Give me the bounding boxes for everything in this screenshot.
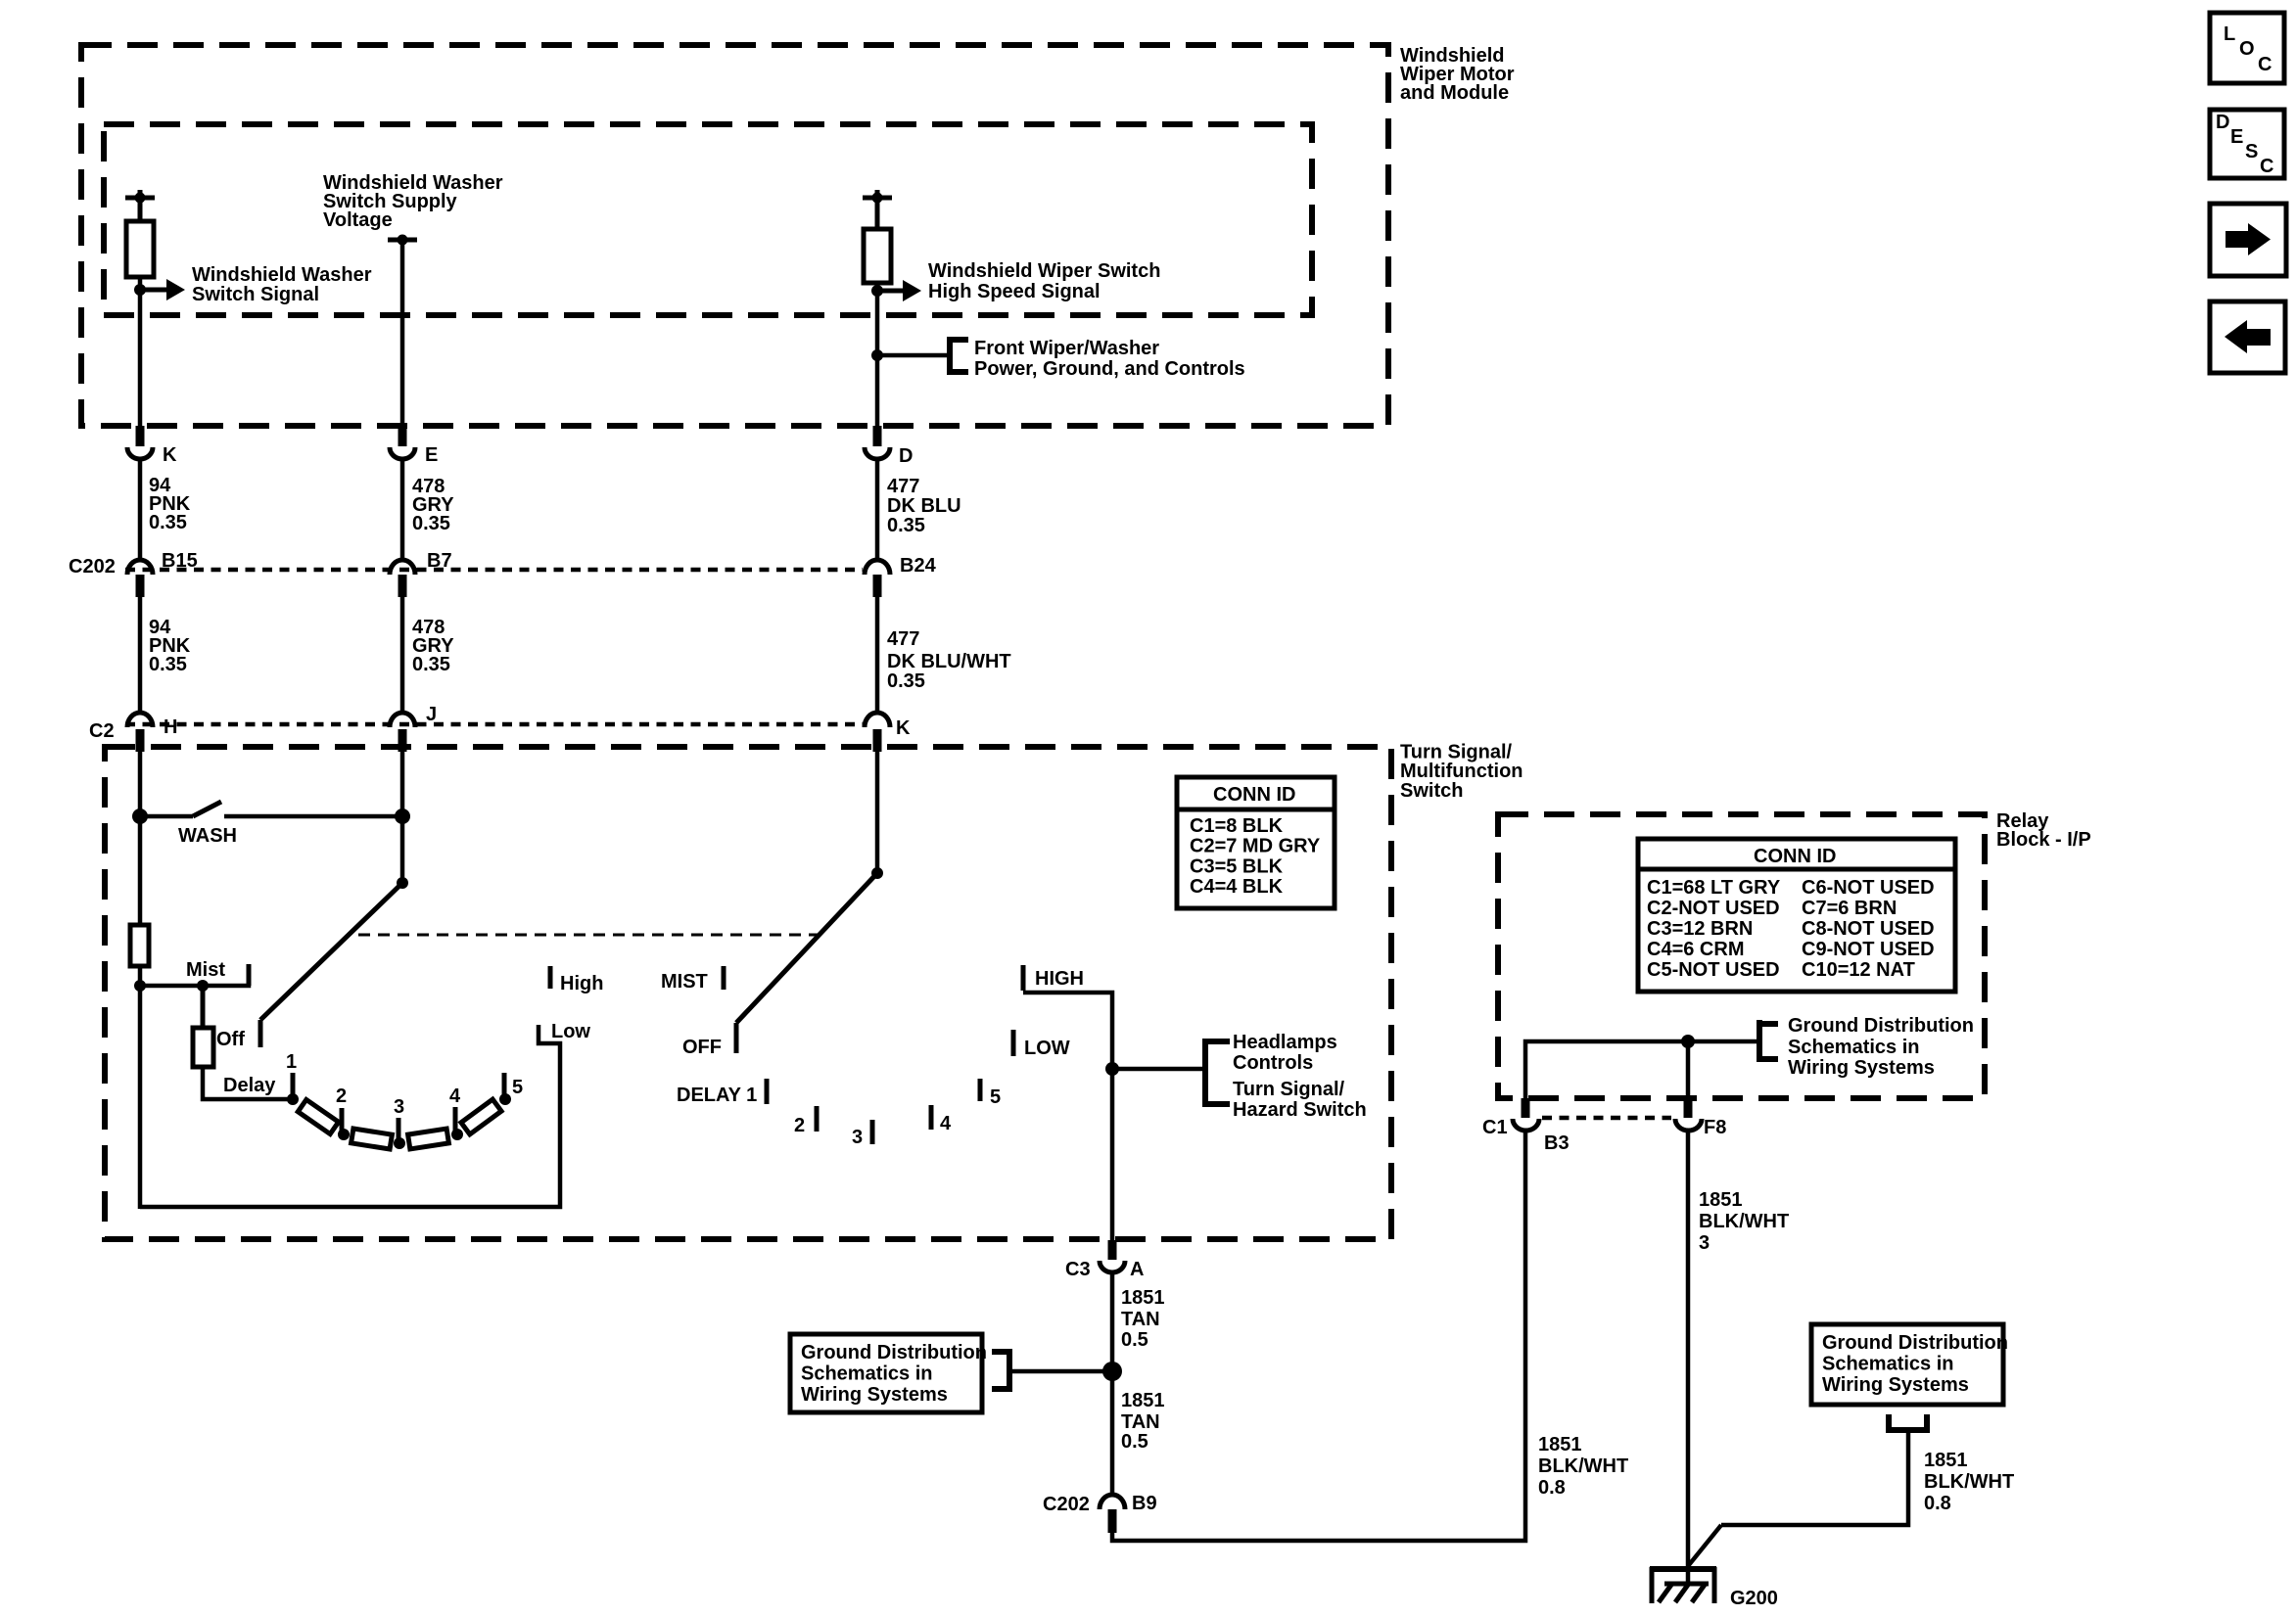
svg-text:Delay: Delay <box>223 1075 276 1096</box>
svg-text:TAN: TAN <box>1121 1309 1160 1330</box>
svg-text:C202: C202 <box>1043 1494 1090 1515</box>
svg-text:Wiring Systems: Wiring Systems <box>1822 1374 1969 1396</box>
svg-text:D: D <box>2216 112 2229 133</box>
svg-text:TAN: TAN <box>1121 1411 1160 1433</box>
svg-text:High: High <box>560 973 603 994</box>
svg-text:477: 477 <box>887 628 919 650</box>
rotary wiper blade (washer/delay) <box>260 883 402 1047</box>
wire label 1851 TAN 0.5 lower <box>1121 1390 1165 1453</box>
svg-text:E: E <box>425 444 438 466</box>
svg-text:0.8: 0.8 <box>1924 1493 1951 1514</box>
svg-text:2: 2 <box>794 1115 805 1136</box>
bracket Headlamps / Turn Signal <box>1202 1039 1230 1106</box>
bracket under right ground box <box>1889 1414 1927 1430</box>
svg-text:S: S <box>2245 141 2258 162</box>
dashed box Windshield Wiper Motor and Module (outer) <box>81 45 1388 426</box>
svg-text:3: 3 <box>1699 1232 1710 1254</box>
node relay ground junction <box>1681 1035 1695 1048</box>
connector C1 pin B3 arc <box>1513 1119 1539 1131</box>
svg-text:Off: Off <box>216 1029 245 1050</box>
dashed box Turn Signal / Multifunction Switch <box>105 747 1391 1239</box>
svg-text:K: K <box>163 444 177 466</box>
svg-text:Voltage: Voltage <box>323 209 393 231</box>
svg-text:Schematics in: Schematics in <box>801 1363 933 1385</box>
contact MIST tick <box>722 966 726 990</box>
svg-text:Ground Distribution: Ground Distribution <box>1822 1332 2008 1354</box>
node contact 1 <box>287 1093 299 1105</box>
svg-text:C: C <box>2260 156 2273 177</box>
svg-text:0.35: 0.35 <box>412 513 450 534</box>
svg-text:BLK/WHT: BLK/WHT <box>1924 1471 2014 1493</box>
wire 478 GRY upper <box>400 460 405 560</box>
wire 2 into switch <box>400 752 405 883</box>
wire to ground distribution bracket <box>1011 1369 1112 1374</box>
contact Mist tick <box>247 964 252 986</box>
svg-text:0.35: 0.35 <box>149 512 187 533</box>
svg-text:Front Wiper/Washer: Front Wiper/Washer <box>974 338 1159 359</box>
node wiper 2 pivot <box>871 867 883 879</box>
connector line C1-F8 <box>1542 1116 1671 1121</box>
wire label 477 DK BLU 0.35 <box>887 476 961 536</box>
contact HIGH tick and wire <box>1023 965 1112 1242</box>
svg-text:1851: 1851 <box>1121 1287 1165 1309</box>
wire to headlamps bracket <box>1112 1067 1203 1072</box>
connector C202 pin B7 arc <box>390 560 415 575</box>
svg-text:0.35: 0.35 <box>887 670 925 692</box>
contact 2 tick (mode) <box>815 1106 820 1132</box>
svg-text:Wiring Systems: Wiring Systems <box>801 1384 948 1406</box>
svg-text:C10=12 NAT: C10=12 NAT <box>1802 959 1915 981</box>
bracket Front Wiper/Washer <box>947 337 968 374</box>
dashed box inner module sub-block <box>104 124 1312 315</box>
wire F8 to ground (1851 BLK/WHT 3) <box>1686 1132 1691 1586</box>
resistor (wiper high speed) <box>864 229 891 283</box>
svg-text:Windshield Wiper Switch: Windshield Wiper Switch <box>928 260 1160 282</box>
label Ground Distribution Schematics (relay) <box>1788 1015 1974 1079</box>
svg-text:C4=6 CRM: C4=6 CRM <box>1647 939 1744 960</box>
contact 5 tick (mode) <box>978 1079 983 1101</box>
svg-text:L: L <box>2224 23 2235 45</box>
wire 1851 TAN upper <box>1110 1273 1115 1363</box>
wire 3 down to connector D <box>875 283 880 427</box>
pin K stub <box>136 426 145 446</box>
svg-text:CONN ID: CONN ID <box>1754 846 1836 867</box>
svg-text:C8-NOT USED: C8-NOT USED <box>1802 918 1935 940</box>
contact 2 tick <box>340 1108 345 1132</box>
node headlamps tap <box>1105 1062 1119 1076</box>
svg-text:C2=7 MD GRY: C2=7 MD GRY <box>1190 836 1321 857</box>
right-arrow legend box <box>2210 204 2286 276</box>
C2 pass-through connector line <box>125 722 863 727</box>
svg-text:2: 2 <box>336 1086 347 1107</box>
svg-text:F8: F8 <box>1704 1117 1726 1138</box>
node wiper 1 pivot <box>397 877 408 889</box>
wire label 1851 TAN 0.5 upper <box>1121 1287 1165 1351</box>
connector D arc <box>865 447 890 459</box>
svg-text:DELAY 1: DELAY 1 <box>677 1085 757 1106</box>
svg-text:0.5: 0.5 <box>1121 1329 1148 1351</box>
dashed box Relay Block - I/P <box>1498 814 1985 1098</box>
WASH switch blade <box>140 802 221 816</box>
node contact 2 <box>338 1129 350 1140</box>
svg-text:1851: 1851 <box>1699 1189 1743 1211</box>
wire 477 DK BLU/WHT <box>875 597 880 715</box>
resistor delay 2-3 <box>351 1129 393 1149</box>
wire label 478 GRY 0.35 upper <box>412 476 454 534</box>
power feed symbol wire 3 <box>863 190 892 229</box>
CONN ID table (Relay Block) <box>1638 839 1955 992</box>
node Off branch <box>197 980 209 992</box>
node washer switch signal tap <box>134 284 146 296</box>
connector C2 pin K arc <box>865 713 890 727</box>
connector E arc <box>390 447 415 459</box>
svg-text:D: D <box>899 445 913 467</box>
svg-text:C4=4 BLK: C4=4 BLK <box>1190 876 1284 898</box>
node ground distribution splice <box>1102 1362 1122 1381</box>
svg-text:0.35: 0.35 <box>412 654 450 675</box>
svg-text:Windshield Washer: Windshield Washer <box>192 264 372 286</box>
label Turn Signal/Multifunction Switch <box>1400 742 1523 803</box>
wire label 1851 BLK/WHT 3 <box>1699 1189 1789 1254</box>
label Front Wiper/Washer Power Ground and Controls <box>974 338 1245 380</box>
contact 4 tick (mode) <box>929 1105 934 1130</box>
wire label 477 DK BLU/WHT 0.35 <box>887 628 1011 692</box>
node contact 3 <box>394 1137 405 1149</box>
svg-text:J: J <box>426 704 437 725</box>
contact 3 tick (mode) <box>870 1120 875 1144</box>
label Windshield Wiper Switch High Speed Signal <box>928 260 1160 302</box>
svg-text:O: O <box>2239 38 2255 60</box>
power feed symbol wire 2 <box>388 235 417 428</box>
diagonal wire into ground <box>1688 1525 1721 1566</box>
svg-text:K: K <box>896 717 911 739</box>
pin J stub <box>398 729 407 752</box>
pin B9 stub <box>1108 1509 1117 1533</box>
node front wiper bracket tap <box>871 349 883 361</box>
connector F8 arc <box>1675 1119 1702 1131</box>
svg-text:H: H <box>164 716 177 738</box>
svg-text:B15: B15 <box>162 550 198 572</box>
pin B24 stub <box>873 575 882 597</box>
pin H stub <box>136 729 145 752</box>
connector C2 pin H arc <box>127 713 153 727</box>
label Relay Block - I/P <box>1996 810 2091 851</box>
rotary wiper blade (wiper mode) <box>736 873 877 1053</box>
svg-text:C3: C3 <box>1065 1259 1091 1280</box>
svg-text:0.35: 0.35 <box>149 654 187 675</box>
wire 3 into switch <box>875 752 880 873</box>
wire to Front Wiper/Washer bracket <box>877 353 948 358</box>
svg-text:C1=68 LT GRY: C1=68 LT GRY <box>1647 877 1781 899</box>
svg-text:and Module: and Module <box>1400 82 1509 104</box>
arrow Windshield Washer Switch Signal <box>140 279 185 300</box>
svg-text:C: C <box>2258 54 2272 75</box>
svg-text:C5-NOT USED: C5-NOT USED <box>1647 959 1780 981</box>
contact 1 tick <box>291 1073 296 1097</box>
svg-text:5: 5 <box>990 1086 1001 1108</box>
arrow Windshield Wiper Switch High Speed Signal <box>877 280 921 301</box>
svg-text:3: 3 <box>394 1096 404 1118</box>
wire label 94 PNK 0.35 upper <box>149 475 191 533</box>
svg-text:3: 3 <box>852 1127 863 1148</box>
left-arrow legend box <box>2210 301 2285 373</box>
svg-text:Switch Signal: Switch Signal <box>192 284 319 305</box>
wire 1851 TAN lower <box>1110 1371 1115 1495</box>
svg-text:0.35: 0.35 <box>887 515 925 536</box>
contact 3 tick <box>397 1118 401 1140</box>
wire 478 GRY lower <box>400 597 405 715</box>
resistor Off (delay) <box>193 1028 213 1067</box>
svg-text:OFF: OFF <box>682 1037 722 1058</box>
label Windshield Washer Switch Supply Voltage <box>323 172 503 231</box>
svg-text:Multifunction: Multifunction <box>1400 761 1523 782</box>
svg-text:1851: 1851 <box>1121 1390 1165 1411</box>
svg-text:BLK/WHT: BLK/WHT <box>1538 1455 1628 1477</box>
wire down to Off resistor <box>201 986 206 1028</box>
svg-text:DK BLU/WHT: DK BLU/WHT <box>887 651 1011 672</box>
label Headlamps Controls <box>1233 1032 1337 1074</box>
svg-text:High Speed Signal: High Speed Signal <box>928 281 1101 302</box>
contact High tick (delay rotary) <box>548 966 553 989</box>
resistor delay 4-5 <box>461 1099 501 1134</box>
contact 4 tick <box>453 1107 458 1131</box>
label Windshield Wiper Motor and Module <box>1400 45 1515 104</box>
svg-text:1851: 1851 <box>1924 1450 1968 1471</box>
wire 94 PNK lower <box>138 597 143 715</box>
resistor delay 1-2 <box>298 1099 338 1133</box>
pin E stub <box>398 426 407 446</box>
pin B15 stub <box>136 575 145 597</box>
svg-text:Wiring Systems: Wiring Systems <box>1788 1057 1935 1079</box>
svg-text:C1=8 BLK: C1=8 BLK <box>1190 815 1284 837</box>
pin F8 stub <box>1684 1098 1693 1118</box>
wire 477 DK BLU <box>875 460 880 560</box>
relay internal wire <box>1525 1041 1759 1100</box>
svg-text:C2-NOT USED: C2-NOT USED <box>1647 898 1780 919</box>
svg-text:A: A <box>1130 1259 1144 1280</box>
svg-text:Ground Distribution: Ground Distribution <box>801 1342 987 1363</box>
svg-text:C3=5 BLK: C3=5 BLK <box>1190 856 1284 878</box>
wire WASH to wire 2 <box>224 814 402 819</box>
svg-text:B7: B7 <box>427 550 452 572</box>
svg-text:Switch: Switch <box>1400 780 1463 802</box>
connector C202 pin B15 arc <box>127 560 153 575</box>
svg-text:4: 4 <box>449 1086 461 1107</box>
box Ground Distribution Schematics in Wiring Systems (right) <box>1811 1324 2008 1405</box>
ground symbol G200 <box>1650 1567 1716 1603</box>
svg-text:Ground Distribution: Ground Distribution <box>1788 1015 1974 1037</box>
svg-text:Block - I/P: Block - I/P <box>1996 829 2091 851</box>
wire 1 down to connector K <box>138 277 143 427</box>
node WASH right <box>395 808 410 824</box>
connector K arc <box>127 447 153 459</box>
svg-text:Controls: Controls <box>1233 1052 1313 1074</box>
label Windshield Washer Switch Signal <box>192 264 372 305</box>
wire to Mist contact <box>140 964 249 986</box>
svg-text:BLK/WHT: BLK/WHT <box>1699 1211 1789 1232</box>
svg-text:Headlamps: Headlamps <box>1233 1032 1337 1053</box>
svg-text:LOW: LOW <box>1024 1038 1070 1059</box>
svg-text:477: 477 <box>887 476 919 497</box>
svg-text:B9: B9 <box>1132 1493 1157 1514</box>
pin K stub lower <box>873 729 882 752</box>
resistor (delay feed) <box>130 925 149 966</box>
common bus bottom (Low return) <box>140 1025 560 1207</box>
node high speed signal tap <box>871 285 883 297</box>
svg-text:Mist: Mist <box>186 959 225 981</box>
svg-text:5: 5 <box>512 1077 523 1098</box>
pin A stub <box>1108 1240 1117 1260</box>
contact DELAY 1 tick <box>765 1079 770 1104</box>
svg-text:C9-NOT USED: C9-NOT USED <box>1802 939 1935 960</box>
resistor delay 3-4 <box>408 1129 449 1149</box>
node contact 4 <box>451 1129 463 1140</box>
svg-text:C2: C2 <box>89 720 115 742</box>
contact 5 tick <box>502 1073 507 1096</box>
svg-text:Turn Signal/: Turn Signal/ <box>1233 1079 1345 1100</box>
connector C2 pin J arc <box>390 713 415 727</box>
label Turn Signal/Hazard Switch <box>1233 1079 1367 1121</box>
svg-text:Hazard Switch: Hazard Switch <box>1233 1099 1367 1121</box>
svg-text:B3: B3 <box>1544 1132 1570 1154</box>
wire label 478 GRY 0.35 lower <box>412 617 454 675</box>
wire right ground box to ground <box>1721 1430 1908 1525</box>
mechanical link dashed <box>358 934 822 937</box>
connector C202 pin B9 arc <box>1100 1495 1125 1509</box>
node mist bus <box>134 980 146 992</box>
wire B9 to relay C1 (1851 BLK/WHT 0.8) <box>1112 1132 1525 1541</box>
bracket ground distribution (center) <box>992 1350 1012 1391</box>
svg-text:CONN ID: CONN ID <box>1213 784 1295 806</box>
pin D stub <box>873 426 882 446</box>
wire label 1851 BLK/WHT 0.8 left <box>1538 1434 1628 1499</box>
box Ground Distribution Schematics in Wiring Systems (center) <box>790 1334 987 1412</box>
svg-text:1: 1 <box>286 1051 297 1073</box>
svg-text:Schematics in: Schematics in <box>1822 1354 1954 1375</box>
svg-text:WASH: WASH <box>178 825 237 847</box>
wire label 1851 BLK/WHT 0.8 right <box>1924 1450 2014 1514</box>
svg-text:B24: B24 <box>900 555 937 577</box>
svg-text:4: 4 <box>940 1113 952 1134</box>
wire 1 to common bus <box>138 966 143 1209</box>
node WASH left <box>132 808 148 824</box>
svg-text:0.8: 0.8 <box>1538 1477 1566 1499</box>
resistor (washer switch pull-up) <box>126 221 154 277</box>
wire 1 into switch <box>138 752 143 925</box>
bracket ground distribution (relay) <box>1757 1020 1778 1062</box>
svg-text:HIGH: HIGH <box>1035 968 1084 990</box>
wire 94 PNK upper <box>138 460 143 560</box>
svg-text:Low: Low <box>551 1021 590 1042</box>
svg-text:1851: 1851 <box>1538 1434 1582 1455</box>
svg-text:G200: G200 <box>1730 1588 1778 1609</box>
power feed symbol wire 1 <box>125 190 155 221</box>
contact LOW tick <box>1011 1030 1016 1056</box>
wire label 94 PNK 0.35 lower <box>149 617 191 675</box>
svg-text:C3=12 BRN: C3=12 BRN <box>1647 918 1753 940</box>
svg-text:Schematics in: Schematics in <box>1788 1037 1920 1058</box>
CONN ID table (Turn Signal switch) <box>1177 777 1335 908</box>
connector C3 pin A arc <box>1100 1261 1125 1272</box>
pin B7 stub <box>398 575 407 597</box>
svg-text:DK BLU: DK BLU <box>887 495 961 517</box>
svg-text:C7=6 BRN: C7=6 BRN <box>1802 898 1897 919</box>
LOC legend box <box>2210 13 2284 83</box>
pin C1 stub <box>1522 1098 1530 1118</box>
svg-text:C202: C202 <box>69 556 116 577</box>
wire Off resistor to Delay contact 1 <box>203 1067 293 1099</box>
node contact 5 <box>499 1093 511 1105</box>
svg-text:C1: C1 <box>1482 1117 1508 1138</box>
svg-text:E: E <box>2230 126 2243 148</box>
C202 pass-through connector line <box>125 568 863 573</box>
svg-text:C6-NOT USED: C6-NOT USED <box>1802 877 1935 899</box>
DESC legend box <box>2210 110 2284 178</box>
svg-text:Power, Ground, and Controls: Power, Ground, and Controls <box>974 358 1245 380</box>
svg-text:MIST: MIST <box>661 971 708 993</box>
svg-text:0.5: 0.5 <box>1121 1431 1148 1453</box>
connector C202 pin B24 arc <box>865 560 890 575</box>
wire junction to F8 <box>1686 1041 1691 1100</box>
